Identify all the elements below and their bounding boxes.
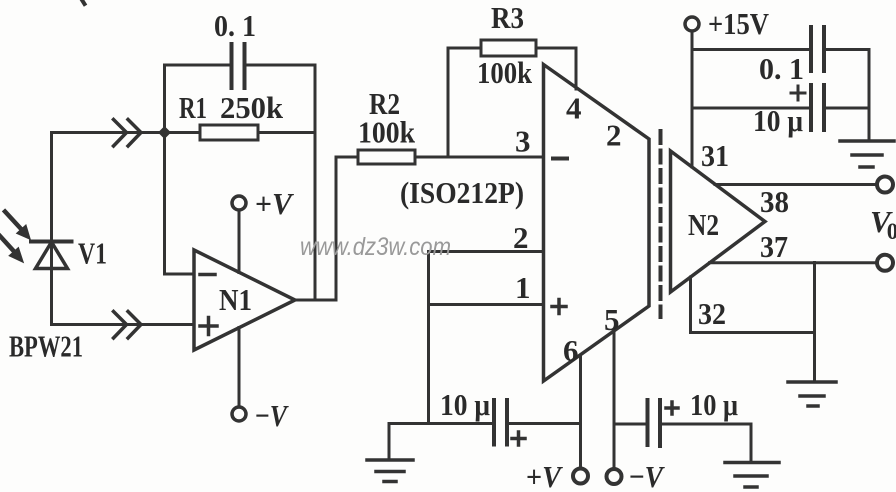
op-amp N1 <box>194 250 295 350</box>
wire R1 to right vertical <box>258 131 315 134</box>
wire pin 5 down <box>613 331 616 469</box>
svg-text:+V: +V <box>526 459 563 492</box>
wire +15V branch 1 <box>692 48 811 51</box>
terminal output 38 <box>877 177 893 193</box>
svg-text:250k: 250k <box>220 90 284 125</box>
svg-text:1: 1 <box>515 270 531 305</box>
wire R3 left <box>448 47 481 50</box>
svg-text:2: 2 <box>606 118 622 153</box>
wire +15V down to N2 <box>691 31 694 167</box>
light arrow 1 <box>5 212 30 239</box>
op-amp N2 <box>671 151 766 292</box>
plus sign (10u bypass) <box>791 86 805 100</box>
svg-text:(ISO212P): (ISO212P) <box>400 175 524 210</box>
svg-text:6: 6 <box>563 333 579 368</box>
svg-text:−V: −V <box>629 459 665 492</box>
svg-text:V1: V1 <box>78 236 107 271</box>
svg-text:R3: R3 <box>491 0 524 35</box>
terminal +15V <box>685 17 699 31</box>
resistor R3 <box>481 40 536 56</box>
svg-text:0. 1: 0. 1 <box>759 51 804 86</box>
wire top feedback right <box>245 64 316 67</box>
svg-text:100k: 100k <box>358 115 416 150</box>
terminal output 37 <box>877 255 893 271</box>
svg-text:3: 3 <box>515 124 531 159</box>
light arrow 2 <box>0 236 23 262</box>
wire pin 37 output <box>710 261 878 264</box>
wire branch1 to right vertical <box>824 48 869 51</box>
resistor R2 <box>358 150 415 164</box>
photodiode V1 <box>31 242 72 325</box>
wire pins 1-2 vertical <box>427 252 430 424</box>
ground (bottom right) <box>725 463 779 488</box>
terminal +V (bottom) <box>573 469 588 484</box>
svg-text:37: 37 <box>760 229 788 264</box>
wire node to R1 <box>165 131 201 134</box>
wire down to ground (bottom right) <box>750 424 753 462</box>
U1 plus sign <box>552 300 566 314</box>
svg-text:−V: −V <box>255 398 289 433</box>
wire R3 left vertical <box>447 48 450 157</box>
svg-text:10 μ: 10 μ <box>753 103 803 138</box>
U1 minus sign <box>553 157 567 161</box>
capacitor 0.1 feedback plates <box>232 44 245 88</box>
wire +15V branch 2 <box>692 107 811 110</box>
svg-text:31: 31 <box>701 138 729 173</box>
terminal -V (N1) <box>232 407 246 421</box>
isolation barrier dashed line <box>659 131 663 317</box>
wire R2 to pin3 <box>415 156 544 159</box>
wire 37 node down <box>813 263 816 382</box>
N1 minus sign <box>200 273 215 277</box>
wire noninverting input <box>52 323 195 326</box>
svg-text:N1: N1 <box>219 282 252 317</box>
wire R3 right <box>536 47 576 50</box>
svg-text:38: 38 <box>760 184 789 219</box>
iso amplifier U1 ISO212P body <box>544 65 650 382</box>
capacitor 10u bypass plates <box>811 85 824 130</box>
wire N1 output <box>295 299 336 302</box>
resistor R1 <box>200 125 258 140</box>
wire photodiode cathode vertical <box>50 133 53 242</box>
svg-text:5: 5 <box>604 302 620 337</box>
wire ground to cap (bottom left) <box>389 422 494 425</box>
wire N1 -V supply <box>238 328 241 408</box>
svg-text:32: 32 <box>698 296 726 331</box>
wire pin 6 down <box>579 355 582 469</box>
wire top feedback left <box>165 64 232 67</box>
wire pin 32 horizontal <box>691 331 815 334</box>
wire inverting input into op-amp <box>165 273 195 276</box>
wire to R2 <box>336 156 358 159</box>
capacitor 10u bottom right plates <box>648 400 661 446</box>
N1 plus sign <box>200 318 217 335</box>
terminal -V (bottom) <box>607 469 622 484</box>
svg-text:BPW21: BPW21 <box>9 329 83 364</box>
svg-text:2: 2 <box>513 220 529 255</box>
wire pin 38 output <box>715 183 877 186</box>
wire cap to pin6 (bottom left) <box>507 422 581 425</box>
plus sign (bottom left cap) <box>512 432 525 445</box>
terminal +V (N1) <box>232 196 246 210</box>
wire inverting input from photodiode <box>52 131 165 134</box>
wire feedback right vertical <box>314 65 317 300</box>
wire pin 2 <box>429 250 544 253</box>
svg-text:V0: V0 <box>870 204 896 244</box>
svg-text:100k: 100k <box>477 55 533 90</box>
svg-text:10 μ: 10 μ <box>690 387 738 422</box>
wire pin 1 <box>429 303 544 306</box>
plus sign (bottom right cap) <box>666 402 678 414</box>
svg-text:4: 4 <box>566 91 582 126</box>
wire output up to R2 <box>335 157 338 300</box>
ground (top right) <box>840 141 894 167</box>
capacitor 0.1 bypass plates <box>811 27 824 71</box>
wire R3 to pin4 <box>575 48 578 89</box>
wire N1 +V supply <box>238 210 241 273</box>
svg-text:+V: +V <box>255 186 294 221</box>
svg-text:0. 1: 0. 1 <box>214 8 256 43</box>
ground (under 32) <box>788 382 836 406</box>
capacitor 10u bottom left plates <box>494 400 507 445</box>
wire cap to ground (bottom right) <box>660 423 751 426</box>
svg-text:10 μ: 10 μ <box>440 387 490 422</box>
wire branch2 to right vertical <box>824 107 869 110</box>
node A junction dot <box>158 126 171 139</box>
stray tick mark top <box>82 0 85 4</box>
wire feedback left vertical <box>163 65 166 274</box>
svg-text:+15V: +15V <box>708 6 770 41</box>
wire chevron marks on noninverting input <box>114 312 142 339</box>
svg-text:N2: N2 <box>688 207 719 242</box>
wire down to ground (bottom left) <box>388 424 391 460</box>
wire chevron marks on inverting input <box>114 120 142 147</box>
svg-text:www.dz3w.com: www.dz3w.com <box>300 233 451 261</box>
wire pin 32 vertical from N2 <box>689 277 692 333</box>
ground (bottom left) <box>367 460 413 482</box>
wire bypass right vertical <box>868 50 871 141</box>
wire pin5 to cap (bottom right) <box>614 423 648 426</box>
svg-text:R1: R1 <box>179 90 207 125</box>
